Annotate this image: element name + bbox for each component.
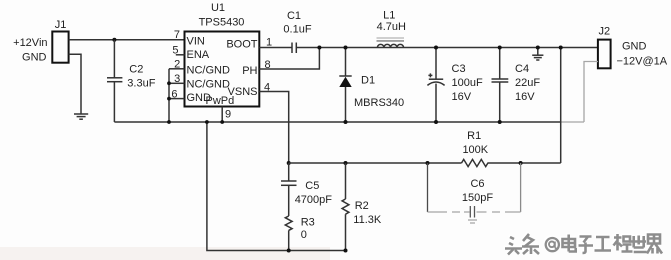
svg-text:4700pF: 4700pF [295,194,333,206]
svg-text:+12Vin: +12Vin [13,37,47,49]
svg-text:16V: 16V [515,91,535,103]
node C6 left junction [426,161,430,165]
node bus-rail junction [167,120,171,124]
svg-text:1: 1 [266,37,272,49]
capacitor C2 [107,40,156,122]
connector J2 [598,25,611,68]
svg-text:C1: C1 [287,10,301,22]
svg-text:BOOT: BOOT [226,38,257,50]
wire pin2/3/6 ground bus [169,69,185,122]
svg-text:R2: R2 [355,200,369,212]
wire feedback line [289,162,561,164]
svg-text:J1: J1 [55,19,67,31]
svg-text:0.1uF: 0.1uF [283,23,311,35]
svg-text:100uF: 100uF [452,77,483,89]
wire -12V rail right segment [561,121,584,123]
svg-text:R1: R1 [467,130,481,142]
diode D1 MBRS340 [339,48,404,123]
node pin9-rail junction [220,120,224,124]
node VSNS feedback junction [287,161,291,165]
pin 5 stub [176,54,185,56]
svg-text:VIN: VIN [187,35,205,47]
wire -12V rail [114,121,561,123]
node riser junction [559,46,563,50]
node ground junction [536,46,540,50]
watermark 头条@电子工程世界 [504,232,662,254]
wire J2 pin2 to -12V rail [584,62,598,123]
wire bottom return loop [207,122,346,251]
node C3 top junction [434,46,438,50]
svg-text:VSNS: VSNS [228,86,258,98]
resistor R1 [462,130,489,167]
inductor L1 [377,10,407,48]
resistor R2 [342,163,382,251]
svg-text:L1: L1 [383,10,395,22]
wire BOOT stub [259,47,292,49]
svg-text:U1: U1 [211,2,225,14]
svg-text:C3: C3 [452,63,466,75]
faint band lower-left [0,247,330,260]
capacitor C3 [427,48,483,123]
svg-text:11.3K: 11.3K [353,214,382,226]
svg-text:GND: GND [622,41,647,53]
svg-text:150pF: 150pF [462,192,493,204]
svg-text:3.3uF: 3.3uF [127,77,155,89]
capacitor C5 [281,163,332,216]
svg-text:ENA: ENA [187,49,210,61]
wire top rail [296,47,598,49]
svg-text:D1: D1 [361,74,375,86]
node D1 anode junction [344,120,348,124]
op-amp U1 TPS5430 [185,2,260,107]
wire J1 pin2 to ground [69,54,81,113]
wire VSNS down [259,92,288,164]
node C2 tap junction [112,38,116,42]
svg-text:9: 9 [225,109,231,121]
node R2 bottom junction [344,249,348,253]
svg-text:TPS5430: TPS5430 [199,16,245,28]
ground [74,114,88,119]
node pin6 junction [167,97,171,101]
node R3 bottom junction [287,249,291,253]
svg-text:100K: 100K [462,144,488,156]
node loop-rail junction [205,120,209,124]
capacitor C1 [283,10,311,53]
wire J1 pin1 to VIN [69,39,185,41]
node C3 bottom junction [434,120,438,124]
capacitor C4 [492,48,541,123]
svg-text:R3: R3 [301,216,315,228]
wire PH to rail [259,48,319,70]
svg-text:GND: GND [22,52,47,64]
ground (output rail) [532,48,543,61]
svg-text:4.7uH: 4.7uH [377,21,406,33]
svg-text:NC/GND: NC/GND [187,64,230,76]
svg-text:MBRS340: MBRS340 [354,97,404,109]
node R2 top junction [344,161,348,165]
svg-text:C5: C5 [305,180,319,192]
svg-text:−12V@1A: −12V@1A [617,56,668,68]
node pin3 junction [167,81,171,85]
connector J1 [52,19,68,63]
svg-text:22uF: 22uF [515,77,540,89]
node C4 top junction [498,46,502,50]
svg-text:NC/GND: NC/GND [187,78,230,90]
svg-text:J2: J2 [598,25,610,37]
node C6 right junction [519,161,523,165]
wire R1 riser [560,48,562,164]
node C4 bottom junction [498,120,502,124]
svg-text:C2: C2 [129,63,143,75]
svg-text:16V: 16V [452,91,472,103]
svg-text:0: 0 [301,229,307,241]
svg-text:PH: PH [242,65,257,77]
node PH junction [317,46,321,50]
svg-text:7: 7 [174,29,180,41]
pin 9 stub [222,107,231,123]
svg-text:C4: C4 [515,63,529,75]
capacitor C6 [428,163,521,223]
node D1 cathode junction [344,46,348,50]
svg-text:C6: C6 [470,178,484,190]
resistor R3 [285,216,314,251]
